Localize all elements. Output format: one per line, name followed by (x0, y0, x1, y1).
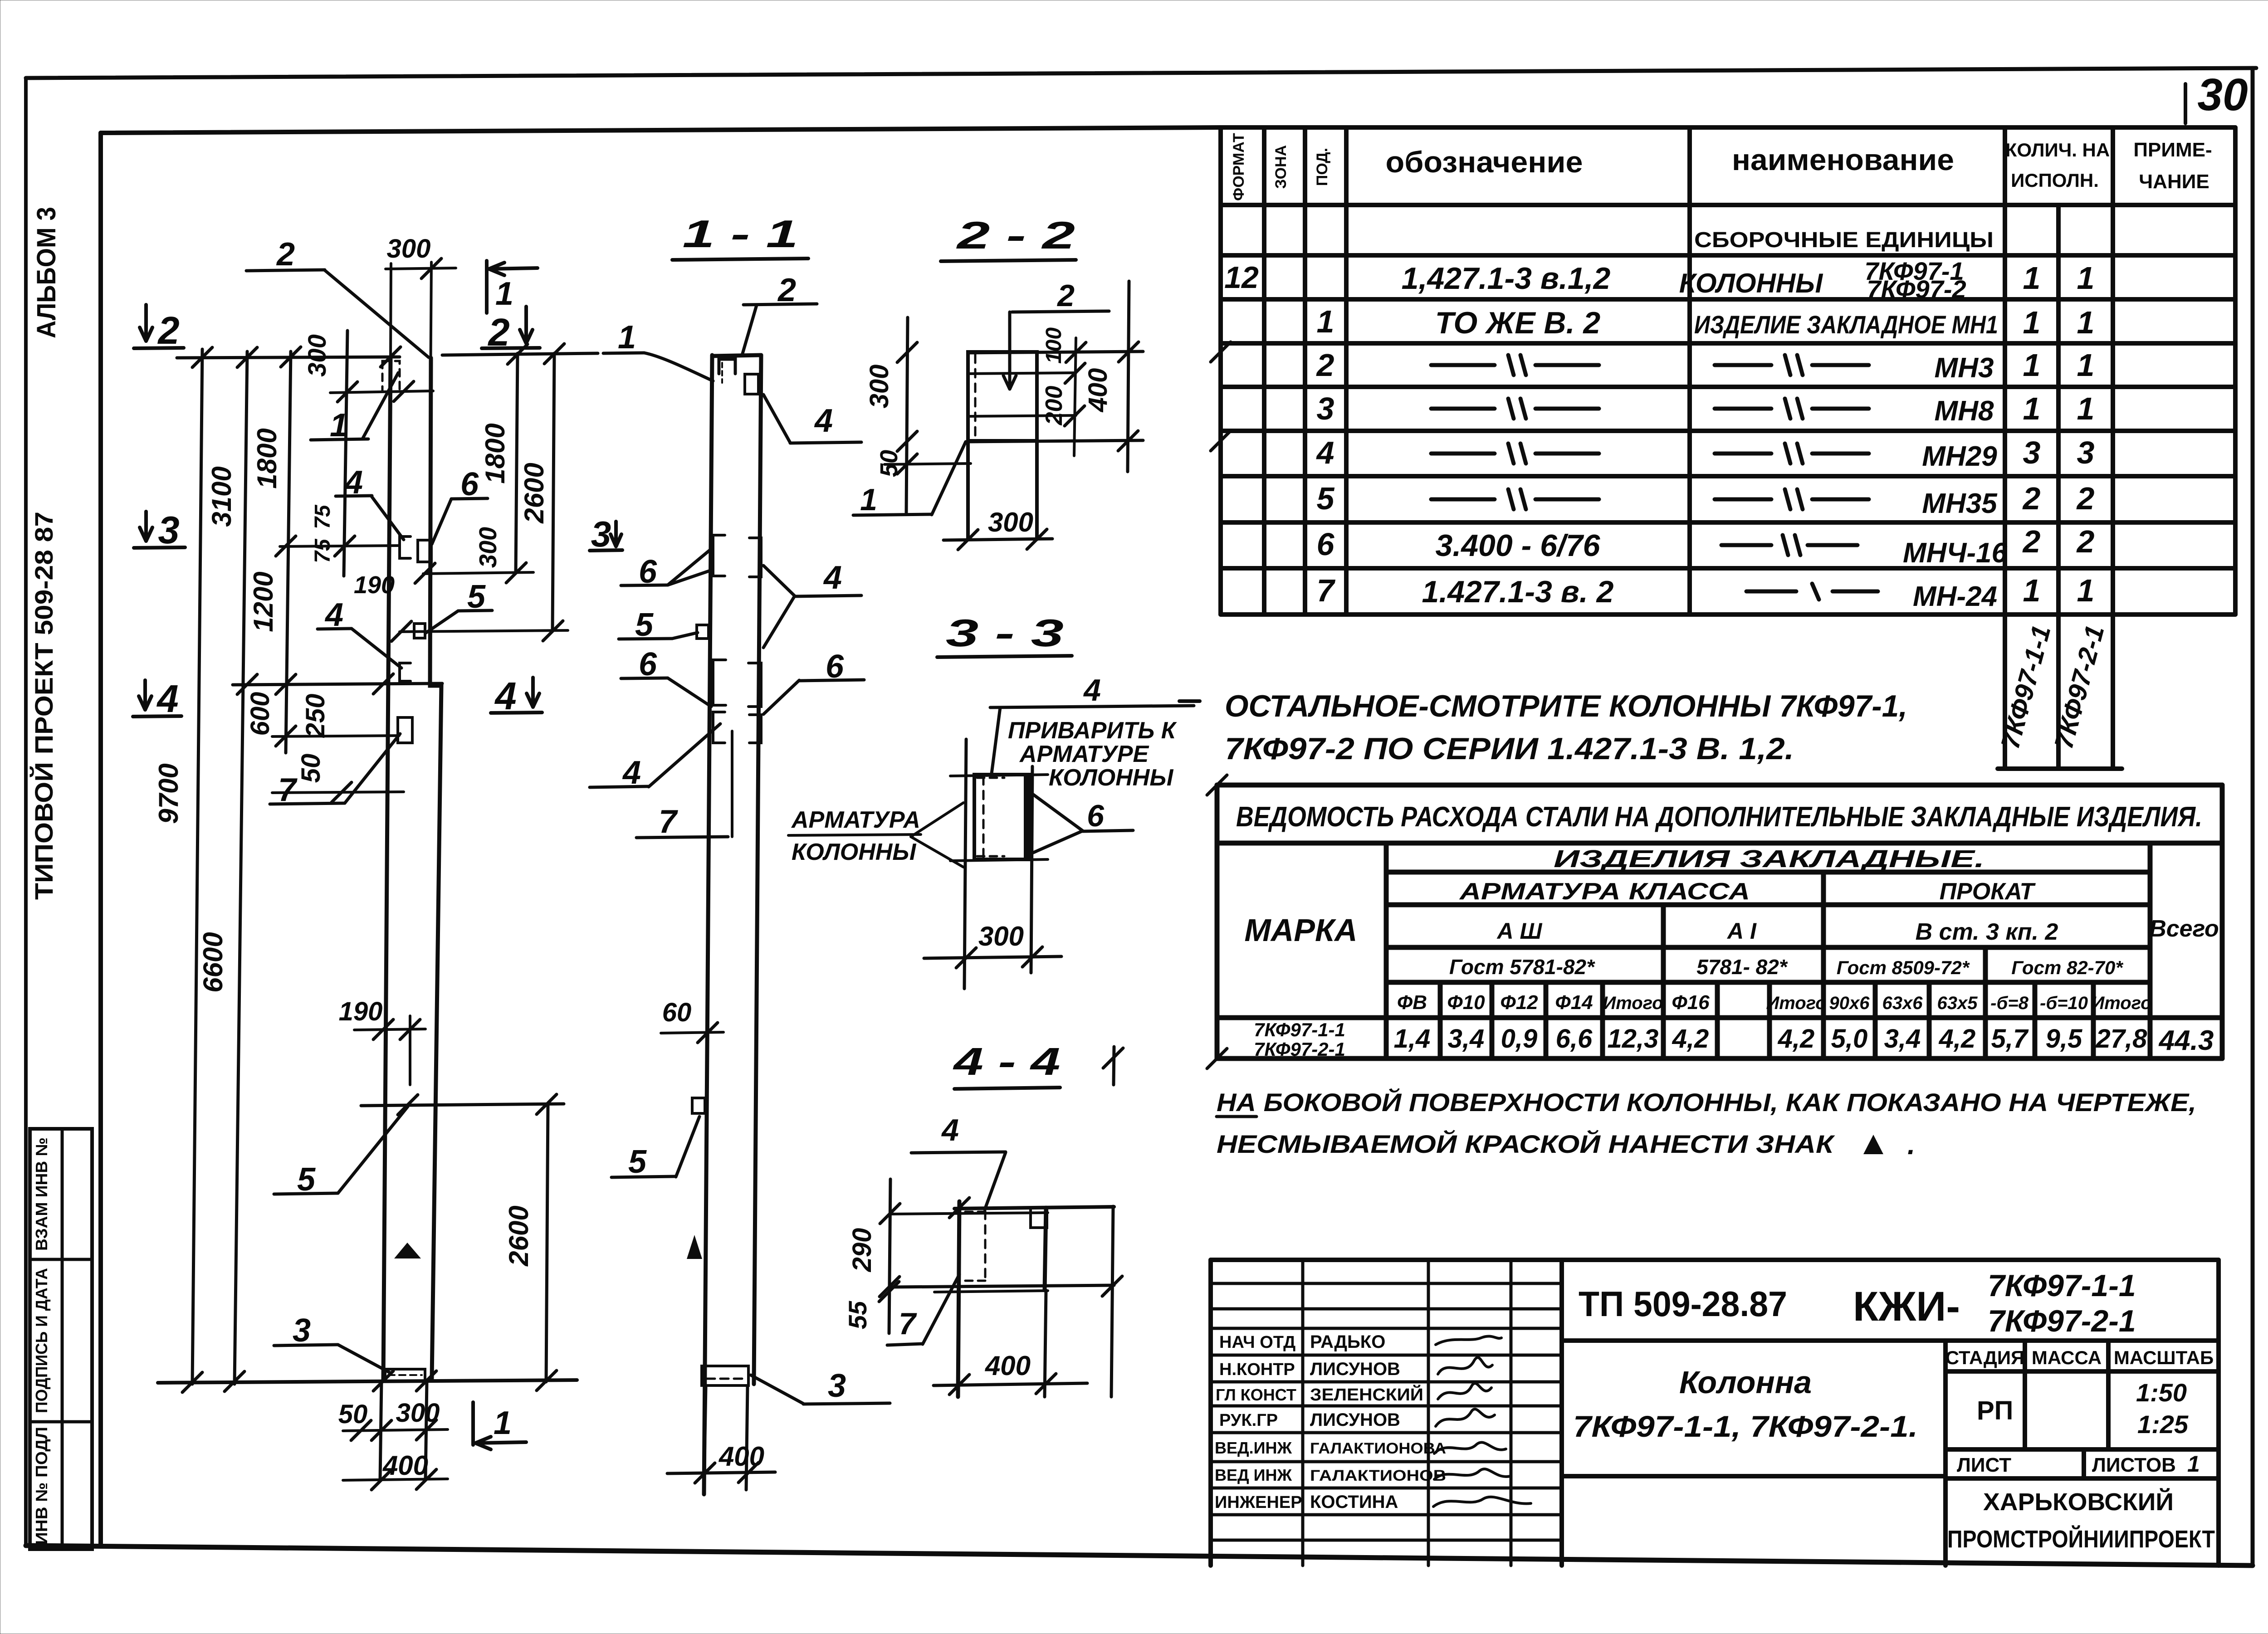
svg-text:200: 200 (1041, 386, 1067, 426)
svg-text:5: 5 (1317, 481, 1335, 516)
svg-text:63х6: 63х6 (1882, 993, 1923, 1013)
svg-text:РП: РП (1977, 1396, 2013, 1425)
svg-text:Итого: Итого (1603, 993, 1663, 1013)
svg-text:190: 190 (339, 997, 383, 1026)
svg-text:МН35: МН35 (1922, 488, 1998, 519)
svg-text:ПРИМЕ-: ПРИМЕ- (2133, 139, 2212, 161)
svg-text:ВЕДОМОСТЬ РАСХОДА СТАЛИ НА ДОП: ВЕДОМОСТЬ РАСХОДА СТАЛИ НА ДОПОЛНИТЕЛЬНЫ… (1236, 801, 2202, 833)
svg-text:300: 300 (865, 365, 894, 409)
svg-text:МН29: МН29 (1922, 441, 1997, 472)
svg-text:400: 400 (382, 1450, 428, 1481)
svg-text:-б=8: -б=8 (1990, 993, 2028, 1013)
svg-text:ПОДПИСЬ И ДАТА: ПОДПИСЬ И ДАТА (32, 1268, 51, 1413)
svg-text:1: 1 (2023, 573, 2041, 608)
svg-text:МАССА: МАССА (2032, 1347, 2102, 1368)
svg-text:В ст. 3 кп. 2: В ст. 3 кп. 2 (1916, 919, 2058, 945)
svg-text:ЛИСТ: ЛИСТ (1957, 1454, 2011, 1476)
svg-text:1200: 1200 (248, 571, 279, 632)
svg-text:обозначение: обозначение (1386, 145, 1583, 179)
svg-text:2: 2 (2022, 524, 2041, 559)
svg-text:СБОРОЧНЫЕ ЕДИНИЦЫ: СБОРОЧНЫЕ ЕДИНИЦЫ (1694, 228, 1994, 252)
svg-text:7КФ97-2 ПО СЕРИИ 1.427.1-3 В.: 7КФ97-2 ПО СЕРИИ 1.427.1-3 В. 1,2. (1225, 732, 1794, 766)
svg-text:7КФ97-1-1: 7КФ97-1-1 (1988, 1268, 2136, 1303)
svg-text:1: 1 (2077, 391, 2095, 426)
svg-text:ХАРЬКОВСКИЙ: ХАРЬКОВСКИЙ (1983, 1488, 2174, 1516)
svg-text:4: 4 (494, 675, 516, 718)
svg-text:300: 300 (474, 527, 502, 568)
svg-text:Ф10: Ф10 (1447, 991, 1485, 1014)
svg-text:600: 600 (245, 692, 275, 736)
svg-text:5,0: 5,0 (1831, 1024, 1868, 1054)
svg-text:3 - 3: 3 - 3 (946, 612, 1064, 655)
svg-text:ОСТАЛЬНОЕ-СМОТРИТЕ КОЛОННЫ 7КФ: ОСТАЛЬНОЕ-СМОТРИТЕ КОЛОННЫ 7КФ97-1, (1225, 689, 1907, 723)
svg-text:3: 3 (2023, 435, 2041, 470)
svg-text:1:25: 1:25 (2137, 1410, 2189, 1439)
svg-text:НЕСМЫВАЕМОЙ КРАСКОЙ НАНЕСТИ ЗН: НЕСМЫВАЕМОЙ КРАСКОЙ НАНЕСТИ ЗНАК (1217, 1130, 1835, 1158)
svg-text:ВЗАМ ИНВ №: ВЗАМ ИНВ № (32, 1137, 51, 1251)
svg-text:7: 7 (1317, 573, 1336, 608)
svg-text:ЗЕЛЕНСКИЙ: ЗЕЛЕНСКИЙ (1310, 1384, 1423, 1405)
svg-text:4: 4 (941, 1113, 959, 1147)
svg-text:2: 2 (487, 311, 509, 354)
svg-text:2: 2 (2022, 481, 2041, 516)
svg-text:6600: 6600 (198, 932, 228, 992)
svg-text:60: 60 (662, 998, 692, 1027)
svg-text:КОЛИЧ. НА: КОЛИЧ. НА (2005, 139, 2110, 161)
svg-text:4,2: 4,2 (1778, 1024, 1815, 1054)
svg-text:НА БОКОВОЙ ПОВЕРХНОСТИ КОЛОННЫ: НА БОКОВОЙ ПОВЕРХНОСТИ КОЛОННЫ, КАК ПОКА… (1217, 1088, 2196, 1117)
svg-text:А І: А І (1726, 918, 1757, 944)
svg-text:2: 2 (2076, 524, 2095, 559)
svg-text:МН3: МН3 (1935, 352, 1994, 384)
svg-text:КЖИ-: КЖИ- (1853, 1283, 1960, 1330)
svg-text:2: 2 (276, 236, 295, 273)
svg-text:АРМАТУРА: АРМАТУРА (791, 807, 920, 833)
svg-text:3: 3 (1317, 391, 1334, 426)
svg-text:ПРИВАРИТЬ К: ПРИВАРИТЬ К (1008, 717, 1177, 744)
svg-text:ВЕД ИНЖ: ВЕД ИНЖ (1215, 1466, 1292, 1484)
svg-text:4: 4 (823, 560, 842, 596)
svg-text:3: 3 (158, 509, 179, 552)
svg-text:27,8: 27,8 (2096, 1024, 2148, 1054)
svg-text:Колонна: Колонна (1679, 1365, 1812, 1400)
svg-text:.: . (1907, 1129, 1915, 1161)
svg-text:АЛЬБОМ 3: АЛЬБОМ 3 (32, 207, 61, 338)
svg-text:300: 300 (988, 507, 1033, 537)
svg-text:1 - 1: 1 - 1 (683, 213, 798, 256)
svg-text:ГАЛАКТИОНОВА: ГАЛАКТИОНОВА (1310, 1440, 1446, 1457)
svg-text:СТАДИЯ: СТАДИЯ (1945, 1347, 2024, 1368)
svg-text:Всего: Всего (2149, 916, 2219, 942)
svg-text:Ф16: Ф16 (1672, 991, 1710, 1014)
svg-text:190: 190 (354, 571, 395, 599)
svg-text:1: 1 (2023, 391, 2041, 426)
svg-text:НАЧ ОТД: НАЧ ОТД (1219, 1333, 1295, 1352)
svg-text:4: 4 (814, 403, 833, 439)
svg-text:ЗОНА: ЗОНА (1272, 145, 1290, 189)
svg-text:Ф14: Ф14 (1555, 991, 1593, 1014)
svg-text:63х5: 63х5 (1937, 993, 1978, 1013)
svg-text:Н.КОНТР: Н.КОНТР (1219, 1360, 1295, 1379)
svg-text:4: 4 (1083, 673, 1101, 707)
svg-text:3,4: 3,4 (1448, 1024, 1485, 1054)
svg-text:250: 250 (301, 694, 330, 738)
svg-text:МН8: МН8 (1935, 395, 1994, 427)
svg-text:2 - 2: 2 - 2 (956, 214, 1075, 257)
svg-text:30: 30 (2197, 69, 2248, 120)
svg-text:3: 3 (2077, 435, 2095, 470)
svg-text:ИЗДЕЛИЕ ЗАКЛАДНОЕ МН1: ИЗДЕЛИЕ ЗАКЛАДНОЕ МН1 (1694, 310, 1998, 339)
svg-text:5781- 82*: 5781- 82* (1696, 955, 1788, 979)
svg-text:Гост 8509-72*: Гост 8509-72* (1837, 957, 1970, 978)
svg-text:Итого: Итого (2091, 993, 2151, 1013)
svg-text:ИНВ № ПОДЛ: ИНВ № ПОДЛ (32, 1427, 51, 1545)
svg-text:12: 12 (1224, 260, 1259, 295)
svg-text:1800: 1800 (252, 428, 282, 488)
svg-text:1,4: 1,4 (1394, 1024, 1431, 1054)
svg-text:55: 55 (843, 1301, 872, 1329)
svg-text:9,5: 9,5 (2046, 1024, 2082, 1054)
svg-text:МНЧ-16: МНЧ-16 (1903, 537, 2007, 569)
svg-text:1: 1 (2187, 1451, 2200, 1477)
svg-text:РАДЬКО: РАДЬКО (1310, 1332, 1385, 1352)
svg-text:ЛИСУНОВ: ЛИСУНОВ (1310, 1410, 1400, 1430)
svg-text:А Ш: А Ш (1496, 918, 1543, 944)
svg-text:3: 3 (293, 1312, 311, 1349)
svg-text:12,3: 12,3 (1608, 1024, 1659, 1054)
svg-text:400: 400 (719, 1441, 764, 1472)
svg-text:2: 2 (1056, 278, 1075, 313)
svg-text:50: 50 (875, 450, 903, 477)
svg-text:7КФ97-1-1: 7КФ97-1-1 (1254, 1019, 1345, 1040)
svg-text:90х6: 90х6 (1829, 993, 1870, 1013)
svg-text:ФОРМАТ: ФОРМАТ (1230, 133, 1247, 201)
svg-text:300: 300 (396, 1398, 440, 1428)
svg-text:300: 300 (303, 334, 331, 376)
svg-text:5,7: 5,7 (1991, 1024, 2029, 1054)
svg-text:ТП 509-28.87: ТП 509-28.87 (1579, 1284, 1787, 1324)
svg-text:3: 3 (828, 1368, 846, 1404)
svg-text:4 - 4: 4 - 4 (953, 1040, 1061, 1083)
svg-text:ПРОКАТ: ПРОКАТ (1940, 878, 2036, 905)
svg-text:АРМАТУРЕ: АРМАТУРЕ (1019, 741, 1149, 767)
svg-text:ТИПОВОЙ ПРОЕКТ 509-28 87: ТИПОВОЙ ПРОЕКТ 509-28 87 (29, 512, 58, 900)
svg-text:2600: 2600 (503, 1205, 534, 1266)
svg-text:ГЛ КОНСТ: ГЛ КОНСТ (1216, 1385, 1296, 1404)
svg-text:300: 300 (387, 234, 431, 263)
svg-text:-б=10: -б=10 (2040, 993, 2088, 1013)
svg-text:6: 6 (1317, 527, 1335, 562)
svg-text:Гост 82-70*: Гост 82-70* (2011, 957, 2123, 978)
svg-text:ИНЖЕНЕР: ИНЖЕНЕР (1215, 1493, 1302, 1512)
svg-text:наименование: наименование (1732, 143, 1954, 176)
svg-text:50: 50 (296, 754, 326, 783)
svg-text:1: 1 (860, 483, 877, 517)
svg-text:КОЛОННЫ: КОЛОННЫ (1049, 765, 1173, 791)
svg-text:4: 4 (156, 678, 178, 721)
svg-text:7КФ97-2: 7КФ97-2 (1867, 275, 1966, 303)
svg-text:3.400 - 6/76: 3.400 - 6/76 (1436, 528, 1601, 563)
svg-text:ТО ЖЕ В. 2: ТО ЖЕ В. 2 (1435, 306, 1601, 340)
svg-text:1.427.1-3 в. 2: 1.427.1-3 в. 2 (1422, 575, 1614, 609)
svg-text:Гост 5781-82*: Гост 5781-82* (1449, 955, 1595, 979)
svg-text:ПРОМСТРОЙНИИПРОЕКТ: ПРОМСТРОЙНИИПРОЕКТ (1947, 1525, 2215, 1553)
svg-text:7: 7 (899, 1307, 917, 1341)
svg-text:5: 5 (628, 1144, 647, 1180)
svg-text:400: 400 (1083, 368, 1113, 413)
svg-text:50: 50 (338, 1400, 368, 1429)
svg-text:1: 1 (495, 276, 513, 312)
svg-text:Ф12: Ф12 (1500, 991, 1538, 1014)
svg-text:300: 300 (978, 921, 1024, 951)
svg-text:1,427.1-3 в.1,2: 1,427.1-3 в.1,2 (1402, 261, 1611, 296)
svg-text:4,2: 4,2 (1939, 1024, 1976, 1054)
svg-text:1: 1 (2023, 260, 2041, 296)
svg-text:ЧАНИЕ: ЧАНИЕ (2139, 171, 2209, 193)
svg-text:1800: 1800 (480, 423, 510, 483)
svg-text:2: 2 (2076, 481, 2095, 516)
svg-text:0,9: 0,9 (1501, 1024, 1538, 1054)
svg-text:6,6: 6,6 (1556, 1024, 1593, 1054)
svg-text:1:50: 1:50 (2136, 1378, 2187, 1407)
svg-text:1: 1 (494, 1405, 512, 1441)
svg-text:7КФ97-2-1: 7КФ97-2-1 (1988, 1304, 2136, 1338)
svg-text:1: 1 (2077, 347, 2095, 383)
svg-text:6: 6 (1087, 799, 1105, 833)
svg-text:2: 2 (1316, 347, 1334, 383)
svg-text:МН-24: МН-24 (1913, 581, 1997, 612)
svg-text:400: 400 (985, 1351, 1031, 1381)
svg-text:290: 290 (847, 1228, 877, 1273)
svg-text:КОЛОННЫ: КОЛОННЫ (1679, 268, 1824, 298)
svg-text:1: 1 (2077, 305, 2095, 340)
svg-text:1: 1 (2077, 573, 2095, 608)
svg-text:7КФ97-1-1, 7КФ97-2-1.: 7КФ97-1-1, 7КФ97-2-1. (1573, 1410, 1918, 1443)
svg-text:9700: 9700 (153, 763, 184, 824)
svg-text:РУК.ГР: РУК.ГР (1219, 1411, 1278, 1430)
svg-text:44.3: 44.3 (2158, 1025, 2214, 1056)
svg-text:75: 75 (311, 504, 335, 529)
svg-text:75: 75 (311, 538, 335, 563)
svg-text:ЛИСТОВ: ЛИСТОВ (2092, 1454, 2176, 1476)
svg-text:4,2: 4,2 (1672, 1024, 1709, 1054)
svg-text:ФВ: ФВ (1397, 991, 1427, 1014)
svg-text:1: 1 (2023, 347, 2041, 383)
svg-text:3,4: 3,4 (1884, 1024, 1921, 1054)
svg-text:МАРКА: МАРКА (1244, 912, 1357, 948)
svg-text:ГАЛАКТИОНОВ: ГАЛАКТИОНОВ (1310, 1467, 1446, 1484)
svg-text:ВЕД.ИНЖ: ВЕД.ИНЖ (1215, 1439, 1292, 1457)
svg-text:АРМАТУРА КЛАССА: АРМАТУРА КЛАССА (1459, 878, 1750, 905)
svg-text:1: 1 (618, 319, 636, 356)
svg-text:ЛИСУНОВ: ЛИСУНОВ (1310, 1359, 1400, 1379)
svg-text:2: 2 (157, 309, 179, 352)
svg-text:МАСШТАБ: МАСШТАБ (2114, 1347, 2214, 1368)
svg-text:КОЛОННЫ: КОЛОННЫ (792, 839, 916, 865)
svg-text:ИЗДЕЛИЯ ЗАКЛАДНЫЕ.: ИЗДЕЛИЯ ЗАКЛАДНЫЕ. (1554, 845, 1984, 873)
svg-text:4: 4 (1316, 435, 1334, 470)
svg-text:1: 1 (2077, 260, 2095, 296)
svg-text:7: 7 (659, 804, 678, 840)
svg-text:100: 100 (1042, 327, 1066, 364)
svg-text:ИСПОЛН.: ИСПОЛН. (2011, 170, 2099, 191)
svg-text:Итого: Итого (1766, 993, 1826, 1013)
svg-text:3100: 3100 (206, 466, 237, 527)
svg-text:1: 1 (1317, 304, 1334, 339)
svg-text:3: 3 (591, 514, 611, 554)
svg-text:КОСТИНА: КОСТИНА (1310, 1492, 1398, 1512)
svg-text:1: 1 (2023, 305, 2041, 340)
svg-text:ПОД.: ПОД. (1314, 148, 1331, 186)
svg-text:7КФ97-2-1: 7КФ97-2-1 (1254, 1039, 1345, 1060)
svg-text:2600: 2600 (519, 463, 549, 523)
